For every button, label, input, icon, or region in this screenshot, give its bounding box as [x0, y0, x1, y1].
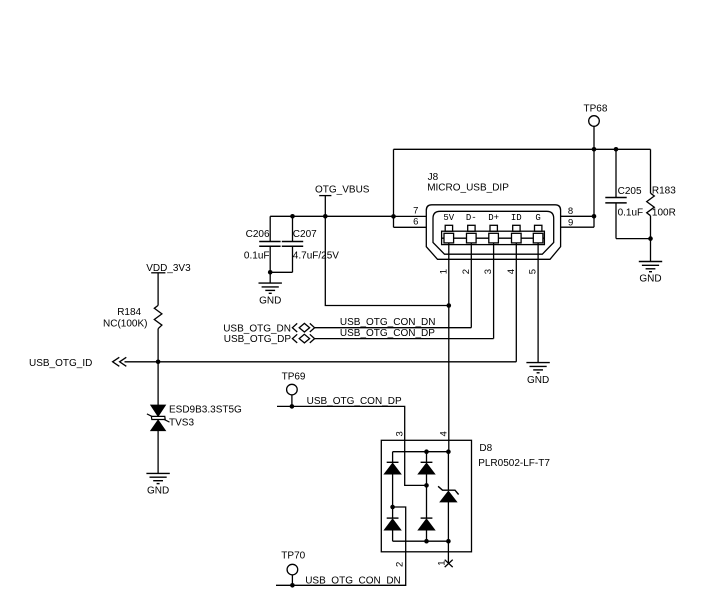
- wire D8 mid branch lower: [426, 530, 428, 541]
- ground GND below C206: [259, 272, 282, 306]
- svg-text:TP69: TP69: [282, 371, 306, 382]
- svg-text:USB_OTG_ID: USB_OTG_ID: [29, 358, 92, 369]
- pin number 4: [506, 269, 517, 274]
- wire D8 left branch middle: [392, 474, 394, 518]
- wire pin 3 down: [493, 243, 495, 339]
- svg-text:OTG_VBUS: OTG_VBUS: [315, 184, 370, 195]
- net label USB_OTG_CON_DP lower: [307, 396, 402, 407]
- wire TVS3 to GND: [157, 431, 159, 474]
- svg-text:D+: D+: [488, 213, 499, 223]
- svg-text:TVS3: TVS3: [169, 418, 194, 429]
- svg-text:4: 4: [506, 269, 517, 274]
- power net VDD_3V3: [146, 263, 191, 274]
- pin number 4 of D8: [438, 431, 449, 436]
- svg-text:TP68: TP68: [584, 104, 608, 115]
- svg-text:2: 2: [394, 562, 405, 567]
- wire D8 left branch lower: [392, 530, 394, 541]
- wire R184 to TVS3: [157, 329, 159, 406]
- wire D8 mid branch middle: [426, 474, 428, 518]
- svg-text:5V: 5V: [443, 213, 454, 223]
- J8 pin square 5 with tab: [535, 225, 542, 231]
- capacitor C207: [282, 216, 339, 272]
- off-page connector USB_OTG_DN: [292, 323, 314, 332]
- no-connect X on D8 pin 1: [445, 560, 453, 567]
- wire pin 1 down to D8: [448, 243, 450, 452]
- J8 pin square 3 with tab: [490, 225, 497, 231]
- svg-text:8: 8: [568, 206, 573, 217]
- svg-text:ESD9B3.3ST5G: ESD9B3.3ST5G: [169, 404, 242, 415]
- svg-text:2: 2: [461, 269, 472, 274]
- wire USB_OTG_ID to pin 4: [125, 361, 517, 363]
- svg-text:C207: C207: [293, 229, 317, 240]
- diode TVS3 ESD9B3.3ST5G: [147, 404, 242, 430]
- svg-text:USB_OTG_CON_DN: USB_OTG_CON_DN: [340, 317, 436, 328]
- diode D8 upper-mid: [419, 462, 435, 474]
- pin number 2: [461, 269, 472, 274]
- pin number 7: [413, 205, 418, 216]
- wire pin 2 down: [470, 243, 472, 328]
- svg-text:D-: D-: [466, 213, 477, 223]
- svg-text:0.1uF: 0.1uF: [244, 251, 270, 262]
- off-page connector USB_OTG_ID chevron: [113, 357, 127, 366]
- node R183 bottom junction dot: [648, 236, 653, 241]
- wire left drop from top rail to pins 7/6: [393, 149, 395, 227]
- svg-text:USB_OTG_CON_DN: USB_OTG_CON_DN: [305, 575, 401, 586]
- svg-text:9: 9: [568, 217, 573, 228]
- node D8 bottom mid junction dot: [424, 539, 429, 544]
- node D8 top mid junction dot: [424, 449, 429, 454]
- pin number 1: [438, 269, 449, 274]
- J8 inner shell: [433, 211, 554, 254]
- pin number 1 of D8: [437, 561, 448, 566]
- svg-text:R183: R183: [652, 186, 676, 197]
- net label USB_OTG_ID: [29, 358, 92, 369]
- svg-text:1: 1: [438, 269, 449, 274]
- diode D8 upper-left: [385, 462, 401, 474]
- net label USB_OTG_DN: [223, 323, 291, 334]
- svg-text:5: 5: [528, 269, 539, 274]
- pin number 2 of D8: [394, 562, 405, 567]
- J8 pin square 1 with tab: [445, 225, 452, 231]
- wire pin 7 stub: [394, 215, 427, 217]
- wire D8 bottom internal rail: [393, 540, 449, 542]
- pin number 8: [568, 206, 573, 217]
- wire TP68 drop to pin8/pin9: [593, 126, 595, 227]
- svg-text:C206: C206: [246, 229, 270, 240]
- wire pin 6 stub: [394, 226, 427, 228]
- wire USB_OTG_CON_DP to pin 3: [315, 338, 494, 340]
- diode D8 lower-mid: [419, 518, 435, 530]
- node D8 pin3 junction dot: [424, 483, 429, 488]
- wire TP70 stub: [291, 575, 293, 585]
- svg-text:4.7uF/25V: 4.7uF/25V: [293, 251, 339, 262]
- svg-text:USB_OTG_DN: USB_OTG_DN: [223, 323, 291, 334]
- svg-text:GND: GND: [639, 274, 661, 285]
- node D8 bottom right junction dot: [446, 539, 451, 544]
- svg-text:GND: GND: [147, 486, 169, 497]
- capacitor C206: [244, 216, 281, 272]
- svg-text:GND: GND: [259, 295, 281, 306]
- resistor R184 NC(100K): [103, 305, 162, 329]
- wire top rail VBUS loop: [394, 148, 651, 150]
- diode D8 lower-left: [385, 518, 401, 530]
- svg-text:GND: GND: [527, 375, 549, 386]
- svg-text:USB_OTG_DP: USB_OTG_DP: [224, 334, 292, 345]
- svg-text:D8: D8: [479, 443, 492, 454]
- node pin7 junction dot: [391, 214, 396, 219]
- node pin8 junction dot: [592, 214, 597, 219]
- node D8 pin2 junction dot: [390, 505, 395, 510]
- wire D8 right branch lower: [447, 502, 449, 564]
- wire C205 bottom to R183 bottom: [616, 238, 651, 240]
- diode array D8 PLR0502-LF-T7: [381, 440, 550, 552]
- net label OTG_VBUS: [315, 184, 370, 216]
- pin number 6: [413, 216, 418, 227]
- net label USB_OTG_DP: [224, 334, 292, 345]
- J8 pin square 2 with tab: [468, 225, 475, 231]
- pin number 3: [483, 269, 494, 274]
- J8 pin square 4 with tab: [513, 225, 520, 231]
- net label USB_OTG_CON_DP: [340, 328, 435, 339]
- svg-text:ID: ID: [511, 213, 522, 223]
- wire USB_OTG_CON_DP to D8 pin 3: [277, 406, 427, 485]
- wire D8 right branch upper: [447, 452, 449, 491]
- svg-text:R184: R184: [117, 307, 141, 318]
- wire D8 top internal rail: [393, 451, 449, 453]
- net label USB_OTG_CON_DN lower: [305, 575, 401, 586]
- svg-text:MICRO_USB_DIP: MICRO_USB_DIP: [427, 182, 509, 193]
- svg-text:J8: J8: [428, 172, 439, 183]
- wire OTG_VBUS down branch to pin 1: [325, 216, 449, 305]
- svg-text:0.1uF: 0.1uF: [618, 207, 644, 218]
- svg-text:100R: 100R: [652, 207, 676, 218]
- wire pin 8 stub: [561, 215, 594, 217]
- wire USB_OTG_CON_DN to D8 pin 2: [276, 507, 406, 585]
- resistor R183: [647, 149, 677, 261]
- ground GND below pin 5: [526, 363, 549, 386]
- node D8 top right junction dot: [446, 449, 451, 454]
- svg-text:3: 3: [483, 269, 494, 274]
- svg-text:C205: C205: [618, 186, 642, 197]
- pin number 9: [568, 217, 573, 228]
- node pin1 VBUS junction dot: [447, 303, 452, 308]
- wire USB_OTG_CON_DN to pin 2: [315, 327, 472, 329]
- svg-text:TP70: TP70: [281, 551, 305, 562]
- ground GND below R183: [639, 262, 662, 285]
- wire pin 4 down: [515, 243, 517, 362]
- wire D8 mid branch upper: [426, 452, 428, 463]
- wire TP69 stub: [291, 395, 293, 407]
- node C206 bottom junction dot: [268, 270, 273, 275]
- wire D8 left branch upper: [392, 452, 394, 463]
- pin number 5: [528, 269, 539, 274]
- svg-text:7: 7: [413, 205, 418, 216]
- off-page connector USB_OTG_DP: [292, 334, 314, 343]
- pin number 3 of D8: [394, 431, 405, 436]
- wire VDD_3V3 to R184: [157, 273, 159, 306]
- svg-text:PLR0502-LF-T7: PLR0502-LF-T7: [478, 458, 550, 469]
- node TP68 junction dot: [592, 147, 597, 152]
- test point TP70: [281, 551, 305, 575]
- svg-text:6: 6: [413, 216, 418, 227]
- node TP70 junction dot: [290, 583, 295, 588]
- svg-text:USB_OTG_CON_DP: USB_OTG_CON_DP: [340, 328, 435, 339]
- J8 pin bar: [442, 231, 545, 244]
- node C207 junction dot: [290, 214, 295, 219]
- capacitor C205: [605, 149, 643, 238]
- wire VBUS rail to J8: [270, 215, 393, 217]
- test point TP68: [584, 104, 608, 127]
- svg-text:4: 4: [438, 431, 449, 436]
- wire pin 5 down to GND: [537, 243, 539, 363]
- test point TP69: [282, 371, 306, 395]
- node C205 junction dot: [614, 147, 619, 152]
- svg-text:G: G: [535, 213, 540, 223]
- svg-text:USB_OTG_CON_DP: USB_OTG_CON_DP: [307, 396, 402, 407]
- ground GND below TVS3: [146, 473, 169, 496]
- wire C207 bottom link: [270, 271, 292, 273]
- node USB_OTG_ID junction dot: [156, 360, 161, 365]
- node OTG_VBUS junction dot: [323, 214, 328, 219]
- net label USB_OTG_CON_DN: [340, 317, 436, 328]
- svg-text:NC(100K): NC(100K): [103, 319, 147, 330]
- svg-text:3: 3: [394, 431, 405, 436]
- wire pin 9 stub: [561, 226, 594, 228]
- zener diode D8: [438, 486, 459, 501]
- connector J8 MICRO_USB_DIP: [426, 172, 560, 259]
- node TP69 junction dot: [290, 404, 295, 409]
- J8 outer shell: [426, 205, 560, 259]
